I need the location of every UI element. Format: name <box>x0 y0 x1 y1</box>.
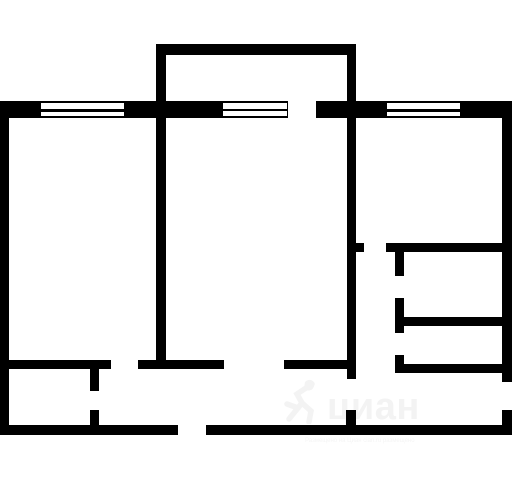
watermark text "циан" <box>327 397 420 417</box>
main exterior wall (top, full width) <box>0 101 512 118</box>
wall B: bathroom vertical wall segment 1 <box>395 252 405 276</box>
window W1 mid line <box>41 109 124 112</box>
bottom exterior wall right part <box>206 425 512 435</box>
left exterior wall <box>0 101 9 435</box>
wall B: bathroom vertical wall segment 3 <box>395 355 405 374</box>
middle vertical wall (room divider) <box>156 117 166 369</box>
hall wall segment 2 (middle) <box>138 360 224 370</box>
hall wall segment 1 (from left wall) <box>0 360 111 370</box>
wall A: horizontal wall right room bottom <box>386 243 512 252</box>
door stub right of second wall <box>356 243 364 252</box>
closet stub upper segment <box>90 369 99 391</box>
watermark logo (cian person) <box>284 374 320 424</box>
window W2 mid line <box>223 109 287 111</box>
window W2 in main wall <box>223 103 287 117</box>
right exterior wall upper part <box>502 101 512 382</box>
balcony right wall <box>347 44 356 101</box>
balcony door opening in main wall <box>288 101 316 118</box>
closet stub lower segment <box>90 410 99 435</box>
watermark small text under bottom wall <box>305 438 415 444</box>
balcony top wall <box>156 44 356 55</box>
balcony left wall <box>156 44 166 101</box>
bottom exterior wall left part <box>0 425 178 435</box>
window W3 in main wall <box>387 103 460 116</box>
wall D: bathroom bottom horizontal <box>395 364 512 374</box>
second vertical wall bottom stub at bottom wall <box>346 410 357 426</box>
window W3 mid line <box>387 109 460 112</box>
wall C: bathroom divider horizontal <box>403 317 512 327</box>
wall B: bathroom vertical wall segment 2 <box>395 298 405 333</box>
right exterior wall lower part <box>502 410 512 435</box>
hall wall segment 3 (to second vertical wall) <box>284 360 347 370</box>
second vertical wall (right room divider) <box>347 117 357 379</box>
window W1 in main wall <box>41 103 124 116</box>
